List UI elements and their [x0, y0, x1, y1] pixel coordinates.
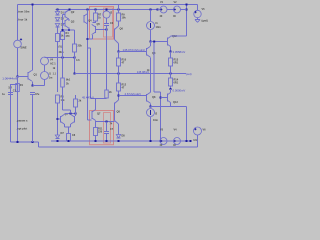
svg-text:Q1: Q1 [34, 73, 38, 77]
wire R12 bottom [118, 91, 120, 100]
wire x74 column [74, 30, 76, 44]
svg-text:(gnd): (gnd) [202, 20, 208, 23]
wire mirror bottom corner [88, 119, 92, 121]
diode D1 [57, 9, 59, 11]
svg-text:.four 1k: .four 1k [18, 18, 28, 22]
svg-text:4.67uV(out2): 4.67uV(out2) [125, 92, 141, 96]
svg-text:Q7: Q7 [97, 113, 101, 116]
svg-text:I1: I1 [156, 21, 159, 25]
voltage source V2 supply [174, 6, 181, 13]
wire Q7 collector [95, 121, 97, 128]
voltage source V1 input [14, 40, 22, 48]
resistor R5 [73, 44, 77, 52]
svg-text:Q6: Q6 [120, 28, 124, 31]
wire Q9 base stub [57, 118, 59, 120]
wire Q12 collector [168, 37, 171, 39]
wire comp column mid [106, 38, 108, 90]
wire Q4 to mirror [88, 38, 93, 40]
resistor R2 [56, 34, 60, 42]
transistor Q4 mirror [87, 9, 89, 11]
wire left border [17, 5, 19, 41]
wire Q9 emitter [63, 124, 65, 127]
wire corner x70 [70, 110, 72, 114]
diode D3 [55, 24, 59, 27]
svg-text:Q13: Q13 [173, 101, 178, 104]
wire C3 bottom [106, 26, 108, 39]
wire bottom left rail [11, 141, 39, 143]
wire V+ rail [56, 9, 158, 11]
wire between tail circles [44, 65, 46, 72]
svg-text:0R1: 0R1 [174, 62, 179, 65]
transistor Q11 VAS lower [146, 94, 148, 102]
svg-text:SINE: SINE [21, 46, 27, 50]
wire Q13 base [161, 97, 168, 99]
wire Q10 collector [150, 42, 152, 47]
node VAS lower base [118, 95, 120, 97]
voltage source V6 ref lower [194, 127, 202, 135]
resistor R1 [16, 84, 20, 92]
wire Q5 base [96, 29, 107, 31]
transistor Q10 VAS [146, 48, 148, 56]
wire Q11 emitter [150, 103, 152, 106]
resistor R4 [61, 32, 65, 40]
svg-text:.opt plot: .opt plot [17, 127, 28, 131]
wire R15 top [75, 95, 77, 99]
voltage source V5 ref [197, 5, 199, 11]
svg-text:2k: 2k [109, 91, 112, 94]
svg-text:10m: 10m [156, 25, 162, 29]
diode D8 [116, 135, 120, 138]
svg-text:47: 47 [122, 87, 125, 90]
svg-text:9k1: 9k1 [66, 79, 71, 82]
wire Q10 base link [151, 41, 168, 43]
svg-text:45.447uV: 45.447uV [82, 95, 94, 99]
wire V- rail [51, 140, 191, 142]
svg-text:AC 1: AC 1 [50, 63, 56, 66]
wire x62 to corner [62, 87, 64, 110]
wire y121 link [96, 121, 115, 123]
svg-text:1k: 1k [53, 67, 56, 70]
svg-text:0R1: 0R1 [174, 82, 179, 85]
wire output rail [75, 73, 187, 75]
wire input column [17, 48, 19, 76]
transistor Q1 input [27, 72, 29, 80]
transistor Q13 output PNP [167, 94, 169, 102]
svg-text:470: 470 [66, 35, 71, 38]
svg-text:220: 220 [98, 131, 103, 134]
transistor Q2a [64, 12, 66, 18]
capacitor C1 [8, 91, 13, 93]
current source I3 main [150, 9, 152, 11]
wire R4 bottom [62, 40, 64, 58]
svg-text:40: 40 [173, 15, 176, 18]
diode D7 [55, 135, 59, 138]
resistor R14 [170, 74, 172, 79]
wire Q1 emitter [32, 82, 34, 86]
transistor Q5 VAS top [95, 21, 97, 23]
wire tail top [44, 56, 46, 59]
transistor Q10b lower mid [74, 116, 76, 123]
wire x57 column [57, 42, 59, 93]
wire y30 link [63, 29, 75, 31]
svg-text:1M: 1M [8, 86, 11, 89]
transistor Q7 VAS lower [91, 111, 93, 119]
wire supply link [181, 9, 187, 11]
svg-text:1k: 1k [61, 34, 64, 38]
wire C7 bottom [106, 134, 108, 142]
wire x10 column [11, 84, 18, 86]
wire VAS base link [119, 51, 147, 53]
resistor R11 [94, 128, 98, 136]
capacitor C2 feedback [30, 91, 35, 93]
red highlight box (VAS upper) [90, 7, 114, 40]
wire diode column [57, 27, 59, 34]
svg-text:1.1: 1.1 [53, 73, 57, 76]
svg-text:Q5: Q5 [97, 23, 101, 26]
wire input lower column [17, 76, 19, 142]
wire R10 bottom [118, 66, 120, 74]
red highlight box inner (compensation lower) [104, 113, 111, 144]
wire bias column [153, 42, 155, 93]
red highlight box (VAS lower) [90, 111, 114, 145]
svg-text:2k: 2k [79, 100, 82, 103]
resistor R9 [118, 9, 120, 11]
wire tail [33, 85, 45, 87]
svg-text:4.6: 4.6 [76, 59, 80, 62]
diode D2 [55, 18, 59, 21]
wire R13 bottom [170, 66, 172, 74]
svg-text:V6: V6 [203, 129, 207, 132]
wire Q1 collector [32, 5, 34, 71]
ground symbol top right [197, 18, 199, 20]
svg-text:1k: 1k [147, 69, 150, 72]
current source tail lower circle [41, 72, 49, 80]
wire Q10 emitter [150, 57, 152, 92]
svg-text:D7: D7 [61, 131, 65, 135]
svg-text:1u: 1u [2, 93, 5, 96]
svg-text:10k: 10k [122, 17, 127, 20]
transistor Q2b [64, 20, 66, 27]
svg-text:I1: I1 [49, 73, 52, 76]
wire input base [18, 76, 28, 78]
svg-text:40m: 40m [59, 51, 65, 54]
node input dot [17, 76, 19, 78]
transistor Q8 cascode lower [115, 100, 119, 104]
wire Q2a collector [65, 10, 69, 13]
resistor R10 [118, 52, 120, 59]
wire lower rail end [190, 140, 192, 142]
svg-text:2k: 2k [66, 83, 69, 86]
wire supply lower link [181, 140, 191, 142]
wire y106 link [151, 106, 187, 108]
svg-text:1k: 1k [98, 17, 101, 20]
wire ground bus step [38, 142, 40, 147]
wire V6 to ground bus [197, 135, 199, 147]
svg-text:(out): (out) [186, 72, 192, 76]
svg-text:Q4: Q4 [88, 20, 92, 23]
svg-text:Q8: Q8 [117, 111, 121, 114]
svg-text:47: 47 [122, 62, 125, 65]
resistor R8 [56, 95, 60, 103]
resistor R13 emitter [170, 52, 172, 59]
wire Q13 collector [168, 100, 171, 102]
svg-text:Q2: Q2 [71, 10, 75, 14]
capacitor C8 [67, 134, 71, 142]
wire R14 bottom [170, 86, 172, 89]
node y113 link [64, 113, 75, 115]
voltage source V3 supply lower [160, 138, 167, 145]
wire VAS lower base link [119, 95, 147, 97]
wire R15 bottom [75, 107, 77, 116]
wire Q13 emitter [168, 93, 171, 95]
svg-text:Q3: Q3 [71, 20, 75, 24]
wire I4 bottom [150, 117, 152, 141]
svg-text:V4: V4 [174, 129, 178, 132]
wire mirror jog [88, 47, 91, 49]
svg-text:1.06444mV: 1.06444mV [2, 77, 17, 81]
svg-text:D8: D8 [122, 135, 126, 138]
svg-text:Q8: Q8 [152, 96, 156, 99]
svg-text:V1: V1 [160, 1, 164, 4]
wire Q2 emitter node [68, 19, 70, 21]
wire Q12 emitter [168, 44, 171, 46]
wire Q8 emitter jog [114, 109, 116, 121]
resistor R15 lower [74, 99, 78, 107]
svg-text:47u: 47u [35, 93, 40, 96]
svg-text:(V): (V) [59, 46, 63, 49]
wire R11 bottom [95, 136, 97, 142]
transistor Q6 cascode [118, 21, 120, 26]
svg-text:.param x: .param x [17, 119, 29, 123]
resistor R12 [118, 74, 120, 84]
svg-text:.tran 10m: .tran 10m [18, 10, 31, 14]
wire feedback column [32, 94, 34, 142]
transistor Q12 output NPN [167, 38, 169, 46]
svg-text:0.0000mV: 0.0000mV [173, 88, 186, 92]
voltage source V4 supply lower [174, 138, 181, 145]
wire Q10b emitter [70, 124, 72, 127]
svg-text:V2: V2 [174, 1, 178, 4]
svg-text:I2: I2 [155, 113, 158, 116]
svg-text:R1: R1 [20, 84, 24, 87]
wire Q2 base column [63, 14, 66, 16]
resistor R8b mirror [105, 90, 109, 98]
wire Q6 emitter jog [114, 35, 116, 40]
wire V+ drop right [186, 5, 188, 37]
wire ground bus [39, 146, 198, 148]
wire x57 lower [57, 103, 59, 135]
wire right down column [186, 107, 188, 142]
transistor Q9 lower left [60, 116, 62, 123]
svg-text:10m: 10m [153, 119, 159, 122]
wire mirror link [45, 57, 75, 59]
capacitor C3 comp [106, 18, 108, 23]
svg-text:74: 74 [110, 123, 113, 126]
current source I1 tail upper circle [41, 57, 49, 65]
svg-text:1m: 1m [49, 77, 53, 80]
svg-text:C8: C8 [72, 134, 76, 137]
resistor R6 nfb [61, 78, 65, 87]
svg-text:V3: V3 [160, 129, 164, 132]
current source I4 [150, 107, 152, 109]
svg-text:V4: V4 [50, 59, 54, 62]
voltage source V1 supply [157, 9, 159, 11]
wire I3 bottom [150, 30, 152, 42]
resistor R7 VAS load [95, 9, 97, 11]
capacitor C7 [106, 122, 108, 132]
wire Q7 emitter [95, 99, 97, 110]
wire top supply rail [18, 4, 198, 6]
svg-text:40: 40 [160, 15, 163, 18]
svg-text:22k: 22k [78, 44, 83, 48]
wire R5 bottom [74, 52, 76, 74]
svg-text:3.0558mV: 3.0558mV [173, 50, 186, 54]
current source I2 comp [106, 9, 108, 11]
wire x62 lower column [62, 58, 64, 79]
red highlight box inner (compensation upper) [104, 8, 113, 37]
svg-text:V5: V5 [202, 8, 206, 11]
